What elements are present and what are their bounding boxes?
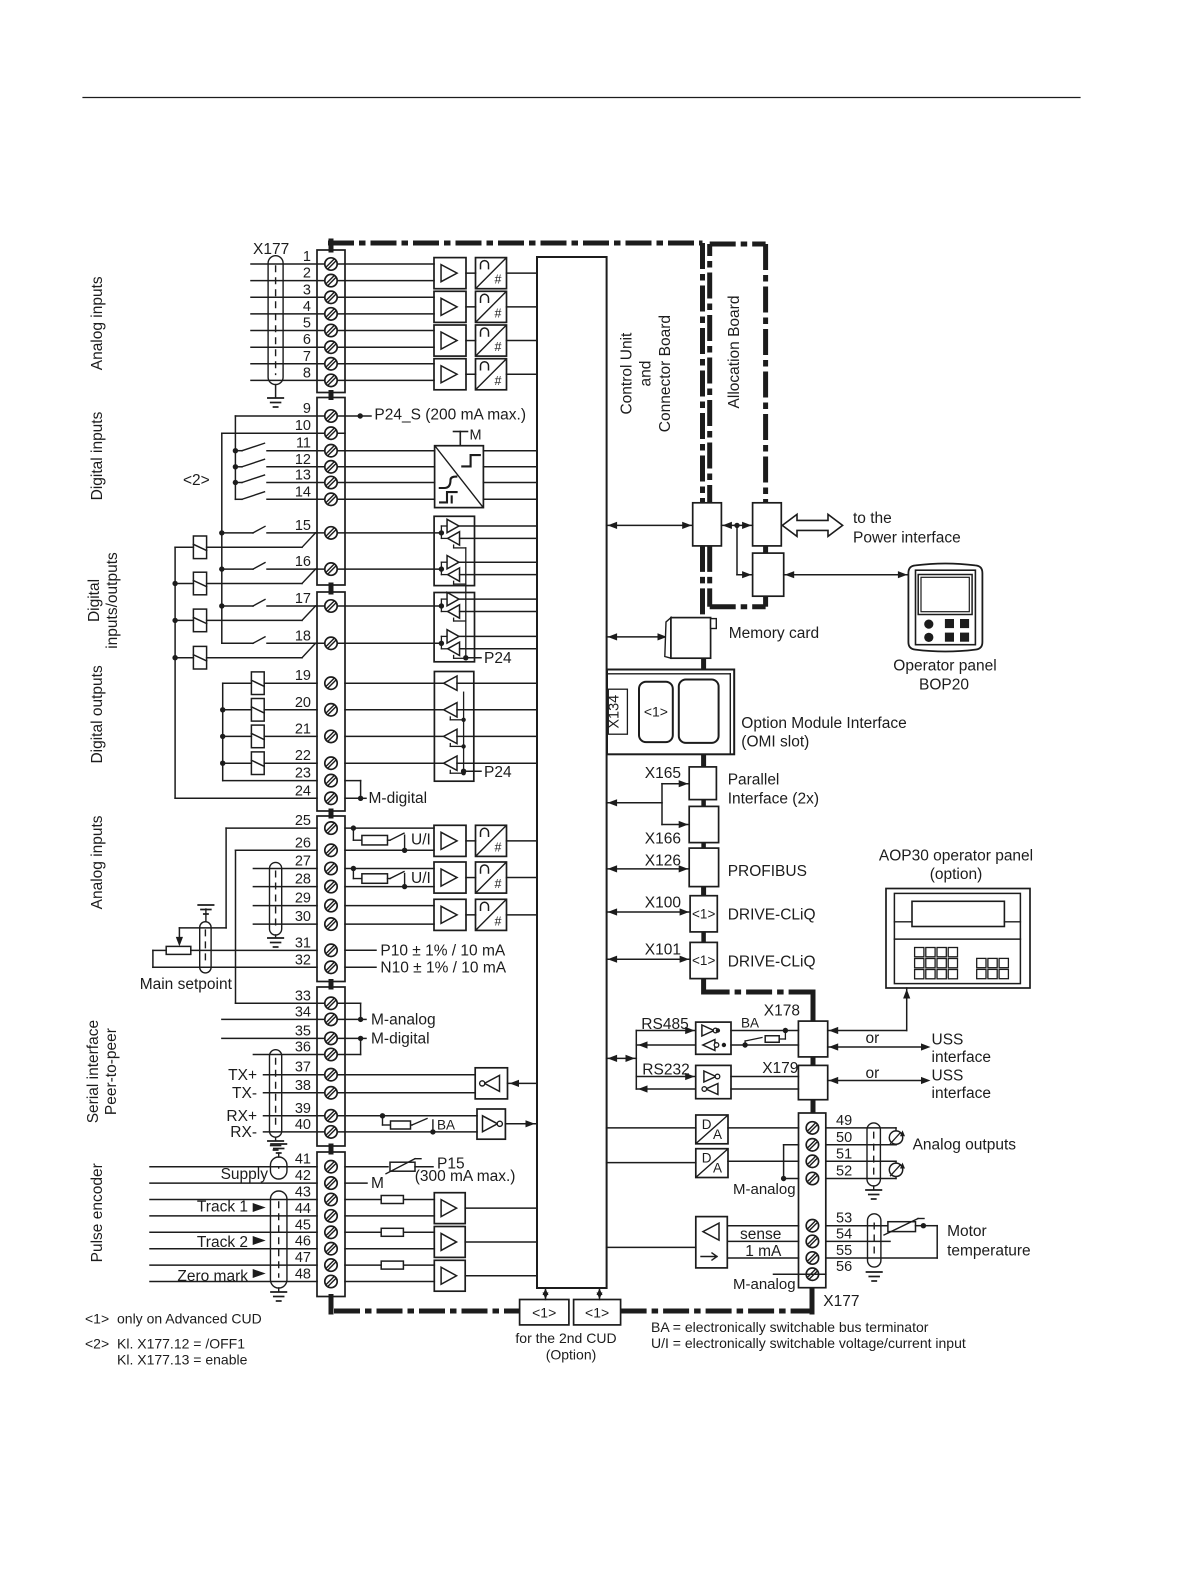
svg-text:48: 48 xyxy=(295,1267,311,1283)
svg-text:X100: X100 xyxy=(645,895,682,912)
svg-text:RX+: RX+ xyxy=(226,1108,257,1125)
svg-text:<1>: <1> xyxy=(692,953,715,968)
svg-text:DRIVE-CLiQ: DRIVE-CLiQ xyxy=(728,907,816,924)
svg-text:Operator panel: Operator panel xyxy=(893,658,996,675)
svg-text:25: 25 xyxy=(295,813,311,829)
svg-text:<2>: <2> xyxy=(183,472,210,489)
svg-text:13: 13 xyxy=(295,468,311,484)
svg-text:1 mA: 1 mA xyxy=(745,1243,782,1260)
svg-text:#: # xyxy=(495,340,502,354)
svg-text:53: 53 xyxy=(836,1211,852,1227)
svg-text:11: 11 xyxy=(296,436,311,452)
svg-text:Interface (2x): Interface (2x) xyxy=(728,791,819,808)
svg-text:5: 5 xyxy=(303,316,311,332)
svg-text:<2>: <2> xyxy=(85,1336,109,1352)
svg-text:#: # xyxy=(495,374,502,388)
svg-text:39: 39 xyxy=(295,1101,311,1117)
svg-text:Kl. X177.12 = /OFF1: Kl. X177.12 = /OFF1 xyxy=(117,1336,245,1352)
svg-text:22: 22 xyxy=(295,748,311,764)
svg-text:17: 17 xyxy=(295,591,311,607)
svg-text:45: 45 xyxy=(295,1217,311,1233)
svg-text:50: 50 xyxy=(836,1130,852,1146)
svg-text:Memory card: Memory card xyxy=(729,625,819,642)
svg-text:38: 38 xyxy=(295,1078,311,1094)
svg-text:X177: X177 xyxy=(253,241,289,258)
svg-text:temperature: temperature xyxy=(947,1243,1031,1260)
svg-text:interface: interface xyxy=(932,1049,991,1066)
svg-text:TX-: TX- xyxy=(232,1085,257,1102)
svg-text:Analog outputs: Analog outputs xyxy=(913,1137,1017,1154)
svg-text:P24: P24 xyxy=(484,764,512,781)
svg-text:interface: interface xyxy=(932,1085,991,1102)
svg-text:Option Module Interface: Option Module Interface xyxy=(741,715,906,732)
svg-text:X101: X101 xyxy=(645,942,681,959)
svg-text:37: 37 xyxy=(295,1060,311,1076)
svg-text:51: 51 xyxy=(836,1146,852,1162)
svg-text:34: 34 xyxy=(295,1004,311,1020)
svg-text:BOP20: BOP20 xyxy=(919,677,969,694)
svg-text:9: 9 xyxy=(303,401,311,417)
svg-text:Power interface: Power interface xyxy=(853,530,961,547)
svg-text:10: 10 xyxy=(295,418,311,434)
svg-text:41: 41 xyxy=(295,1152,311,1168)
svg-text:#: # xyxy=(495,306,502,320)
svg-text:Digital: Digital xyxy=(86,579,103,622)
svg-text:#: # xyxy=(495,273,502,287)
svg-text:42: 42 xyxy=(295,1168,311,1184)
svg-text:M-digital: M-digital xyxy=(369,790,428,807)
svg-text:46: 46 xyxy=(295,1234,311,1250)
svg-text:<1>: <1> xyxy=(85,1311,109,1327)
svg-text:#: # xyxy=(495,914,502,928)
svg-text:Main setpoint: Main setpoint xyxy=(140,976,233,993)
svg-text:A: A xyxy=(713,1127,722,1142)
svg-text:56: 56 xyxy=(836,1259,852,1275)
svg-text:24: 24 xyxy=(295,783,311,799)
svg-text:#: # xyxy=(495,840,502,854)
svg-text:to the: to the xyxy=(853,510,892,527)
svg-text:DRIVE-CLiQ: DRIVE-CLiQ xyxy=(728,954,816,971)
svg-text:54: 54 xyxy=(836,1226,852,1242)
svg-text:X165: X165 xyxy=(645,765,681,782)
svg-text:M-analog: M-analog xyxy=(733,1181,796,1198)
svg-text:26: 26 xyxy=(295,835,311,851)
svg-text:N10 ± 1% / 10 mA: N10 ± 1% / 10 mA xyxy=(380,960,506,977)
svg-text:BA = electronically switchable: BA = electronically switchable bus termi… xyxy=(651,1319,929,1335)
svg-text:AOP30 operator panel: AOP30 operator panel xyxy=(879,848,1033,865)
svg-text:Kl. X177.13 = enable: Kl. X177.13 = enable xyxy=(117,1352,248,1368)
svg-text:or: or xyxy=(866,1030,880,1047)
svg-text:X178: X178 xyxy=(764,1003,800,1020)
svg-text:32: 32 xyxy=(295,952,311,968)
svg-text:Connector Board: Connector Board xyxy=(657,315,674,432)
svg-text:49: 49 xyxy=(836,1113,852,1129)
svg-text:27: 27 xyxy=(295,854,311,870)
svg-text:P24: P24 xyxy=(484,650,512,667)
svg-text:Track 1: Track 1 xyxy=(197,1199,248,1216)
svg-text:Zero mark: Zero mark xyxy=(177,1268,248,1285)
svg-text:PROFIBUS: PROFIBUS xyxy=(728,863,807,880)
svg-text:Digital inputs: Digital inputs xyxy=(89,411,106,500)
svg-text:Digital outputs: Digital outputs xyxy=(89,665,106,763)
svg-text:<1>: <1> xyxy=(644,704,668,720)
svg-text:1: 1 xyxy=(303,249,311,265)
svg-text:sense: sense xyxy=(740,1226,781,1243)
svg-text:29: 29 xyxy=(295,891,311,907)
svg-text:47: 47 xyxy=(295,1250,311,1266)
svg-text:14: 14 xyxy=(295,484,311,500)
svg-text:19: 19 xyxy=(295,668,311,684)
svg-text:P10 ± 1% / 10 mA: P10 ± 1% / 10 mA xyxy=(380,943,505,960)
svg-text:X177: X177 xyxy=(823,1293,859,1310)
svg-text:or: or xyxy=(866,1065,880,1082)
svg-text:BA: BA xyxy=(741,1016,759,1031)
svg-text:Motor: Motor xyxy=(947,1223,987,1240)
svg-text:12: 12 xyxy=(295,452,311,468)
svg-text:M: M xyxy=(371,1175,384,1192)
svg-text:U/I = electronically switchabl: U/I = electronically switchable voltage/… xyxy=(651,1335,966,1351)
svg-text:40: 40 xyxy=(295,1117,311,1133)
svg-text:only on Advanced CUD: only on Advanced CUD xyxy=(117,1311,262,1327)
svg-text:X166: X166 xyxy=(645,831,681,848)
svg-text:8: 8 xyxy=(303,365,311,381)
svg-text:Analog inputs: Analog inputs xyxy=(89,276,106,370)
svg-text:M-digital: M-digital xyxy=(371,1031,430,1048)
svg-text:43: 43 xyxy=(295,1185,311,1201)
svg-text:#: # xyxy=(495,877,502,891)
svg-text:(Option): (Option) xyxy=(546,1347,597,1363)
svg-text:4: 4 xyxy=(303,299,311,315)
svg-text:Track 2: Track 2 xyxy=(197,1234,248,1251)
svg-text:BA: BA xyxy=(437,1118,455,1133)
svg-text:Peer-to-peer: Peer-to-peer xyxy=(103,1028,120,1115)
svg-text:X179: X179 xyxy=(762,1060,798,1077)
svg-text:30: 30 xyxy=(295,909,311,925)
svg-text:15: 15 xyxy=(295,518,311,534)
svg-text:X134: X134 xyxy=(606,695,622,729)
svg-text:<1>: <1> xyxy=(532,1305,556,1321)
svg-text:TX+: TX+ xyxy=(228,1067,257,1084)
svg-text:M-analog: M-analog xyxy=(371,1012,436,1029)
svg-text:35: 35 xyxy=(295,1023,311,1039)
svg-text:A: A xyxy=(713,1161,722,1176)
svg-text:Parallel: Parallel xyxy=(728,772,780,789)
svg-text:36: 36 xyxy=(295,1040,311,1056)
svg-text:31: 31 xyxy=(295,935,311,951)
svg-text:44: 44 xyxy=(295,1201,311,1217)
svg-text:X126: X126 xyxy=(645,853,681,870)
svg-text:USS: USS xyxy=(932,1067,964,1084)
svg-text:for the 2nd CUD: for the 2nd CUD xyxy=(515,1330,616,1346)
svg-text:U/I: U/I xyxy=(411,832,431,849)
svg-text:16: 16 xyxy=(295,554,311,570)
svg-text:D: D xyxy=(702,1151,712,1166)
svg-text:Control Unit: Control Unit xyxy=(619,332,636,415)
svg-text:6: 6 xyxy=(303,332,311,348)
svg-text:52: 52 xyxy=(836,1164,852,1180)
svg-text:D: D xyxy=(702,1117,712,1132)
svg-text:21: 21 xyxy=(295,721,311,737)
svg-text:20: 20 xyxy=(295,695,311,711)
svg-text:M: M xyxy=(470,428,482,444)
svg-text:Pulse encoder: Pulse encoder xyxy=(89,1163,106,1262)
svg-text:RX-: RX- xyxy=(230,1124,257,1141)
svg-text:33: 33 xyxy=(295,988,311,1004)
svg-text:USS: USS xyxy=(932,1032,964,1049)
svg-text:55: 55 xyxy=(836,1243,852,1259)
svg-text:Allocation Board: Allocation Board xyxy=(726,296,743,409)
svg-text:M-analog: M-analog xyxy=(733,1276,796,1293)
svg-text:Supply: Supply xyxy=(221,1166,269,1183)
svg-text:23: 23 xyxy=(295,766,311,782)
svg-text:inputs/outputs: inputs/outputs xyxy=(104,552,121,649)
svg-text:18: 18 xyxy=(295,628,311,644)
svg-text:and: and xyxy=(638,361,655,387)
svg-text:<1>: <1> xyxy=(585,1305,609,1321)
svg-text:(OMI slot): (OMI slot) xyxy=(741,734,809,751)
svg-text:(300 mA max.): (300 mA max.) xyxy=(415,1168,516,1185)
svg-text:7: 7 xyxy=(303,349,311,365)
svg-text:2: 2 xyxy=(303,266,311,282)
svg-text:(option): (option) xyxy=(930,866,983,883)
svg-text:U/I: U/I xyxy=(411,870,431,887)
svg-text:P24_S (200 mA max.): P24_S (200 mA max.) xyxy=(374,407,526,424)
svg-text:<1>: <1> xyxy=(692,907,715,922)
svg-text:28: 28 xyxy=(295,872,311,888)
svg-text:Analog inputs: Analog inputs xyxy=(89,815,106,909)
svg-text:3: 3 xyxy=(303,282,311,298)
svg-text:Serial interface: Serial interface xyxy=(85,1020,102,1123)
